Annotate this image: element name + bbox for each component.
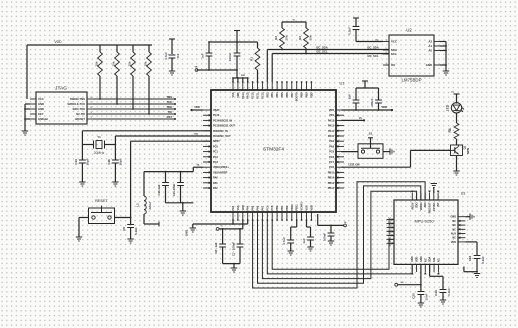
svg-text:20MHz: 20MHz (94, 151, 105, 155)
svg-text:GND: GND (38, 102, 44, 106)
LED D1 (446, 103, 464, 113)
wire I2C_SCL (272, 49, 389, 82)
svg-text:NC: NC (452, 224, 456, 227)
ground C19 (440, 300, 446, 304)
svg-text:VDD: VDD (381, 105, 387, 109)
wire U3 VDD to C18 (465, 242, 477, 256)
svg-text:0.1uF: 0.1uF (348, 27, 352, 35)
U3 left pin SCLK (387, 233, 395, 240)
U3 right pin VDD (451, 241, 466, 244)
svg-text:PC2: PC2 (213, 156, 218, 159)
wire U3 to C20 (420, 264, 422, 291)
svg-text:PB14: PB14 (328, 177, 335, 180)
svg-text:SCL: SCL (433, 257, 436, 262)
U1 right pin PA9 (329, 140, 344, 143)
svg-text:SDA: SDA (429, 257, 432, 262)
U1 bottom pin VDD (242, 205, 245, 221)
U1 top pin PB5 (281, 81, 284, 97)
wire VDDA rail (144, 164, 203, 173)
svg-text:PB8: PB8 (301, 92, 304, 97)
capacitor 1uF (VDD bracket) (348, 94, 360, 110)
capacitor C18 0.1uF (468, 255, 485, 271)
U3 right pin NC (452, 236, 465, 239)
svg-text:I2C_SDA: I2C_SDA (367, 45, 378, 49)
svg-text:LM75BDP: LM75BDP (401, 78, 421, 83)
U1 right pin PB14 (328, 176, 344, 179)
capacitor C16 10pF (107, 145, 122, 183)
capacitor C15 100nF (323, 225, 335, 241)
U1 left pin PA2 (203, 187, 218, 190)
wire GND rail below U1 (193, 220, 248, 228)
svg-text:PC4: PC4 (266, 205, 269, 210)
svg-text:PC1: PC1 (213, 151, 218, 154)
U3 left pin SDO (387, 241, 395, 246)
wire VDD cap rail (208, 41, 257, 43)
svg-text:FSYNC: FSYNC (433, 202, 436, 211)
U3 bottom pin NC (437, 258, 440, 274)
svg-text:PB12: PB12 (328, 187, 335, 190)
svg-text:SDO: SDO (416, 202, 419, 207)
U1 right pin PC8 (329, 156, 344, 159)
svg-text:SWDCLK-TCK: SWDCLK-TCK (67, 102, 85, 106)
U3 bottom pin SDA (429, 257, 432, 272)
svg-text:VDD: VDD (416, 257, 419, 262)
JTAG right pin SWO-TDO (72, 107, 93, 111)
U1 bottom pin VDD (310, 205, 313, 221)
U1 left pin PC0 (203, 145, 218, 148)
wire cap bottom rail to connector (197, 69, 238, 71)
svg-text:U2: U2 (406, 28, 412, 33)
svg-text:NPN: NPN (466, 148, 470, 154)
svg-text:PA4: PA4 (247, 205, 250, 210)
svg-text:GNDdet: GNDdet (38, 117, 48, 121)
wire net TCK (93, 100, 176, 105)
svg-text:PA15: PA15 (247, 92, 250, 99)
svg-text:BOOT0: BOOT0 (296, 92, 299, 101)
U3 right pin NC (452, 224, 465, 227)
resistor R1 (250, 42, 260, 82)
U1 top pin PB6 (286, 81, 289, 97)
svg-text:10k: 10k (127, 61, 131, 66)
svg-text:10k: 10k (309, 35, 313, 40)
svg-text:SDI: SDI (389, 238, 392, 242)
connector J1 JTAG box (36, 86, 87, 125)
svg-text:PB3: PB3 (271, 92, 274, 97)
JTAG left pin KEY (30, 112, 44, 116)
svg-text:PA7: PA7 (261, 205, 264, 210)
U1 bottom pin PB10 (291, 204, 294, 221)
U1 top pin PC11 (257, 81, 260, 98)
U1 left pin VBAT (203, 109, 220, 112)
svg-text:PB1: PB1 (281, 205, 284, 210)
svg-text:PC11: PC11 (257, 92, 260, 99)
U3 left pin AUXDA (387, 224, 395, 233)
svg-text:SDO: SDO (389, 241, 392, 246)
svg-text:C19: C19 (434, 290, 438, 296)
svg-text:PC14/OSC32_IN: PC14/OSC32_IN (213, 119, 232, 122)
svg-text:PC6: PC6 (329, 166, 334, 169)
svg-text:GND: GND (426, 63, 432, 67)
svg-text:PC8: PC8 (329, 156, 334, 159)
wire net VDD to VBAT (190, 105, 203, 111)
svg-text:VSS: VSS (329, 114, 334, 117)
svg-text:1uF: 1uF (201, 53, 205, 59)
switch S1 (358, 144, 383, 159)
wire R2 R3 top join (282, 19, 306, 28)
svg-text:10pF: 10pF (118, 158, 122, 165)
svg-text:TDO: TDO (166, 105, 172, 109)
U3 bottom pin VDD (416, 257, 419, 272)
wire SPI bus 4 (267, 220, 412, 274)
U2 right pin A1 (428, 44, 440, 48)
U2 left pin OS (383, 63, 395, 67)
svg-text:VDDIO: VDDIO (420, 202, 423, 210)
wire U3 top pin to ground (433, 188, 435, 194)
svg-text:PA5: PA5 (252, 205, 255, 210)
svg-text:PA3: PA3 (232, 205, 235, 210)
capacitor 100nF (U1 top) (228, 42, 240, 70)
svg-text:1: 1 (385, 40, 386, 42)
U1 top pin VSS (232, 81, 235, 97)
svg-text:VDD: VDD (242, 205, 245, 210)
resistor pull-up 10k #4 (143, 45, 151, 115)
svg-text:100nF: 100nF (370, 98, 374, 107)
U1 bottom pin PB11 (296, 204, 299, 221)
capacitor C7 100nF (232, 229, 244, 264)
U1 bottom pin PB0 (276, 205, 279, 221)
resistor pull-up 10k #1 (94, 45, 102, 100)
wire net TDO (93, 105, 176, 110)
U1 right pin VSS (329, 114, 344, 117)
svg-text:GND: GND (450, 216, 456, 219)
capacitor C20 10nF (412, 292, 429, 304)
U1 bottom pin PC4 (266, 205, 269, 221)
wire 1uF bracket (307, 220, 311, 237)
JTAG right pin SWDCLK-TCK (67, 102, 93, 106)
crystal Y1 20MHz (82, 135, 115, 155)
IC U2 temperature sensor (389, 28, 434, 83)
svg-text:VDD: VDD (241, 75, 246, 77)
svg-text:NC: NC (437, 258, 440, 262)
svg-text:GND: GND (185, 230, 189, 236)
svg-text:1: 1 (385, 63, 386, 65)
ground JTAG (22, 131, 28, 135)
U1 right pin PA10 (328, 135, 344, 138)
svg-text:22uH: 22uH (148, 202, 152, 209)
ground C8 C7 (231, 268, 237, 272)
svg-text:JTAG: JTAG (55, 86, 67, 92)
U3 top pin FSYNC (433, 193, 436, 211)
resistor R3 10k (298, 28, 313, 54)
svg-text:LED: LED (446, 104, 450, 111)
JTAG right pin SWDIO-TMS (70, 97, 93, 101)
svg-text:VCAP1: VCAP1 (301, 202, 304, 211)
U1 right pin PC6 (329, 166, 344, 169)
svg-text:1uF: 1uF (348, 94, 352, 99)
U1 bottom pin PA7 (261, 205, 264, 221)
svg-text:VDD: VDD (329, 109, 334, 112)
wire 100nF rail (318, 214, 344, 226)
svg-text:PB5: PB5 (281, 92, 284, 97)
svg-text:REGOUT: REGOUT (429, 202, 432, 213)
svg-text:RST: RST (167, 115, 173, 119)
svg-text:GND: GND (411, 256, 414, 262)
IC U1 STM32F4 body (211, 81, 345, 213)
svg-text:SCL: SCL (391, 52, 397, 56)
U2 right pin GND (426, 63, 440, 67)
svg-text:L1: L1 (136, 203, 140, 207)
svg-text:A0: A0 (428, 49, 432, 53)
svg-text:0.1uF: 0.1uF (447, 288, 451, 296)
svg-text:I2C_SCL: I2C_SCL (367, 54, 378, 58)
svg-text:OSC: OSC (194, 133, 199, 135)
svg-text:PC3: PC3 (213, 161, 218, 164)
U1 bottom pin PB2 (286, 205, 289, 221)
ground U3 right (sideways) (470, 214, 474, 220)
U1 top pin VDD (237, 81, 240, 98)
U1 left pin PC13 (203, 114, 220, 117)
svg-text:U3: U3 (461, 192, 466, 196)
wire VDD bracket (356, 88, 379, 101)
resistor R4 (448, 120, 459, 140)
ground C20 (418, 303, 424, 307)
IC U3 MPU-9250 body (394, 192, 465, 265)
svg-text:TMS: TMS (166, 95, 172, 99)
U2 right pin A0 (428, 49, 440, 53)
wire RESET right to NRST (115, 217, 131, 219)
svg-text:VSSA/VREF-: VSSA/VREF- (213, 171, 228, 174)
svg-text:PA9: PA9 (329, 140, 334, 143)
ground C18 (474, 274, 480, 278)
U3 top pin SDO (416, 193, 419, 208)
U1 left pin PH0/OSC_IN (203, 130, 228, 133)
svg-text:SWDIO-TMS: SWDIO-TMS (70, 97, 85, 101)
power rail VDD (top-left) (27, 45, 152, 99)
U1 right pin PB12 (328, 187, 344, 190)
svg-text:0.1uF: 0.1uF (481, 256, 485, 264)
svg-text:PB9: PB9 (306, 92, 309, 97)
U1 right pin VDD (329, 109, 344, 112)
capacitor 1uF (U1 top) (201, 42, 213, 70)
U1 bottom pin PA4 (247, 205, 250, 221)
svg-text:C8 - 1uF: C8 - 1uF (214, 242, 218, 253)
power bar above C2 0.1uF (353, 18, 359, 27)
svg-text:PC12: PC12 (261, 92, 264, 99)
svg-text:C11-10nF: C11-10nF (172, 183, 176, 196)
U3 top pin RESV (411, 191, 414, 210)
resistor R2 10k (274, 28, 289, 50)
svg-text:PB6: PB6 (286, 92, 289, 97)
U1 left pin PC15/OSC32_OUT (203, 124, 235, 127)
wire net TDI (93, 110, 176, 115)
svg-text:R3: R3 (298, 36, 302, 40)
U3 bottom pin GND (420, 256, 423, 272)
wire L1 tap (144, 222, 159, 227)
svg-text:C16: C16 (107, 159, 111, 165)
U3 top pin VDDIO (420, 193, 423, 210)
power bar VDD right (362, 81, 368, 88)
svg-text:PB7: PB7 (291, 92, 294, 97)
wire S1 to ground (383, 151, 390, 153)
svg-text:PB13: PB13 (328, 182, 335, 185)
wire LED_ON from U1 to Q1 base (342, 150, 451, 167)
capacitor C2 0.1uF (U2 supply) (348, 27, 384, 42)
capacitor C8 1uF (214, 229, 226, 264)
svg-text:PC0: PC0 (213, 145, 218, 148)
U3 right pin NC (452, 220, 465, 223)
capacitor C19 0.1uF (434, 288, 451, 300)
svg-text:0.1uF: 0.1uF (134, 227, 138, 235)
svg-text:PA0: PA0 (213, 177, 218, 180)
svg-text:OS: OS (391, 63, 395, 67)
connector stub Vs (C20) (395, 282, 404, 286)
svg-text:1: 1 (385, 52, 386, 54)
capacitor C10 1uF (157, 172, 169, 203)
svg-text:LED_ON: LED_ON (349, 163, 360, 167)
wire LED to R4 (456, 113, 458, 120)
svg-text:NC: NC (452, 228, 456, 231)
wire C8 C7 bottom rail (223, 263, 240, 268)
U1 left pin PH1/OSC_OUT (203, 135, 231, 138)
U3 bottom pin GND (411, 256, 414, 274)
svg-text:R2: R2 (274, 36, 278, 40)
JTAG left pin GND (30, 107, 44, 111)
U1 top pin PA14 (242, 81, 245, 98)
svg-text:NC: NC (452, 237, 456, 240)
wire SPI bus 2 (258, 186, 421, 283)
svg-text:VCC: VCC (38, 97, 44, 101)
JTAG left pin GND (30, 102, 44, 106)
svg-text:C10-1uF: C10-1uF (157, 184, 161, 195)
svg-text:GND: GND (420, 256, 423, 262)
U1 bottom pin VSS (237, 205, 240, 221)
wire VDD rail right of U1 (342, 105, 394, 111)
svg-text:100nF: 100nF (323, 233, 327, 241)
ground C10 C11 (180, 211, 186, 215)
ground C13 (307, 247, 313, 251)
U1 right pin PC9 (329, 151, 344, 154)
switch RESET button (89, 199, 115, 224)
U3 left pin AUXCL (387, 220, 395, 229)
svg-text:VDD: VDD (310, 205, 313, 210)
U3 left pin SDI (387, 238, 395, 242)
U1 bottom pin PB1 (281, 205, 284, 221)
connector stub (100nF rail) (344, 222, 347, 227)
U1 top pin PD2 (266, 82, 269, 97)
wire U3 GND pin right (465, 216, 470, 218)
svg-text:U1: U1 (339, 81, 345, 86)
wire net RST (93, 115, 176, 120)
svg-text:PH1/OSC_OUT: PH1/OSC_OUT (213, 135, 231, 138)
U1 right pin PA8 (329, 145, 344, 148)
power bar VDD above U1 (234, 31, 240, 43)
svg-text:KEY: KEY (38, 112, 44, 116)
svg-text:C1: C1 (176, 54, 180, 58)
svg-text:AD0: AD0 (424, 202, 427, 208)
svg-text:VDD: VDD (54, 40, 62, 44)
svg-text:A1: A1 (428, 44, 432, 48)
connector stub VB (195, 67, 198, 72)
ground Q1 (453, 171, 459, 175)
U1 left pin PC2 (203, 156, 218, 159)
svg-text:10pF: 10pF (85, 158, 89, 165)
svg-text:AUX: AUX (451, 233, 457, 236)
U3 left pin SYNC (387, 217, 395, 224)
capacitor C12 4.7uF (282, 237, 294, 251)
wire net TMS (93, 95, 176, 100)
svg-text:VDDA/VREF+: VDDA/VREF+ (213, 166, 229, 169)
U2 left pin SDA (383, 48, 397, 52)
svg-text:10k: 10k (111, 61, 115, 66)
svg-text:PB0: PB0 (276, 205, 279, 210)
wire VCAP bracket (291, 220, 297, 240)
U3 right pin NC (452, 228, 465, 231)
svg-text:I2C_SDA: I2C_SDA (316, 45, 327, 49)
U1 left pin PA0 (203, 176, 218, 179)
U1 top pin PC12 (261, 81, 264, 99)
svg-text:NC-TDI: NC-TDI (76, 112, 85, 116)
U1 left pin PC1 (203, 150, 218, 153)
U1 left pin NRST (203, 140, 220, 143)
svg-text:PC7: PC7 (329, 161, 334, 164)
svg-text:GND: GND (38, 107, 44, 111)
capacitor C1 4.7uF (164, 52, 180, 71)
svg-text:PA13: PA13 (328, 119, 335, 122)
U2 right pin A2 (428, 40, 440, 44)
JTAG right pin NC-TDI (76, 112, 93, 116)
U1 bottom pin PA6 (257, 205, 260, 221)
svg-text:PD2: PD2 (266, 92, 269, 97)
svg-text:Vs: Vs (359, 116, 363, 120)
U3 bottom pin NC (424, 258, 427, 274)
ground C14 (79, 182, 85, 186)
ground GND net (185, 228, 197, 236)
wire Vs to C20 (398, 284, 421, 286)
svg-text:1uF: 1uF (302, 238, 306, 244)
wire R4 to Q1 (456, 140, 458, 145)
svg-text:PA2: PA2 (213, 187, 218, 190)
U1 right pin PA11 (328, 130, 344, 133)
svg-text:100nF: 100nF (228, 52, 232, 61)
ground U2 (443, 71, 449, 75)
wire C8 C7 top rail (219, 220, 243, 230)
U1 right pin PB13 (328, 182, 344, 185)
svg-text:PA11: PA11 (328, 130, 335, 133)
U3 left pin nCS (387, 229, 395, 234)
wire C10 C11 bottom rail (166, 202, 194, 211)
U1 top pin PB7 (291, 81, 294, 97)
resistor pull-up 10k #2 (111, 45, 119, 105)
svg-text:VSS: VSS (306, 205, 309, 210)
wire Q1 emitter to ground (456, 156, 458, 172)
svg-text:Y1: Y1 (97, 135, 101, 139)
resistor pull-up 10k #3 (127, 45, 135, 110)
svg-text:R1: R1 (250, 57, 254, 61)
U1 bottom pin VSS (306, 205, 309, 221)
U1 right pin PB15 (328, 171, 344, 174)
svg-text:SWO-TDO: SWO-TDO (72, 107, 85, 111)
svg-text:C14: C14 (74, 159, 78, 165)
svg-text:PB2: PB2 (286, 205, 289, 210)
svg-text:PB15: PB15 (328, 171, 335, 174)
svg-text:VSS: VSS (237, 205, 240, 210)
wire SPI bus 1 (253, 182, 426, 288)
capacitor C11 10nF (172, 172, 184, 203)
U1 top pin PA15 (247, 81, 250, 98)
svg-text:PA10: PA10 (328, 135, 335, 138)
wire NRST (130, 141, 211, 224)
wire SPI bus 5 (272, 220, 394, 269)
